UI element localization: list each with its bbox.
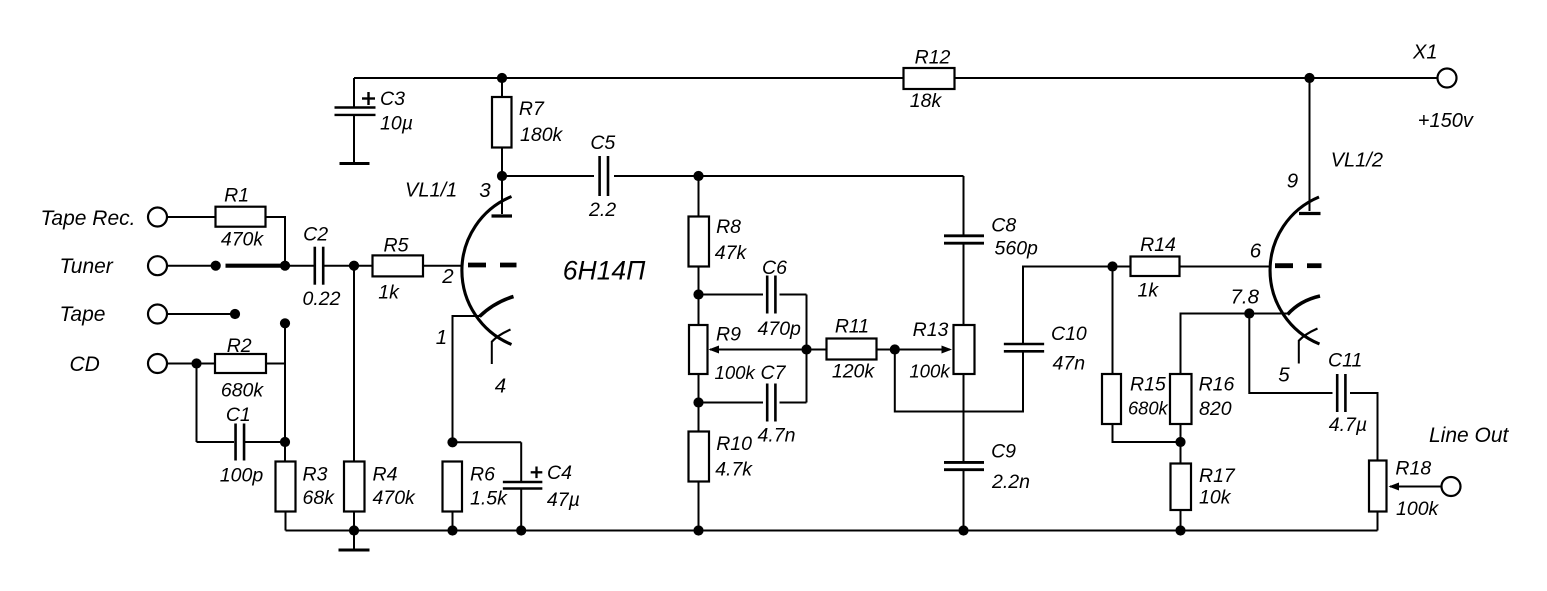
svg-text:100p: 100p (220, 465, 264, 487)
svg-text:470k: 470k (373, 487, 417, 509)
svg-text:CD: CD (70, 353, 100, 376)
svg-text:10µ: 10µ (380, 113, 413, 135)
svg-text:VL1/2: VL1/2 (1331, 149, 1383, 171)
svg-text:820: 820 (1199, 398, 1232, 420)
svg-text:4.7k: 4.7k (715, 458, 753, 480)
svg-text:4.7n: 4.7n (758, 425, 796, 447)
svg-text:560p: 560p (995, 238, 1039, 260)
svg-text:R16: R16 (1199, 374, 1235, 396)
svg-text:2.2: 2.2 (588, 199, 616, 221)
svg-text:R8: R8 (716, 216, 741, 238)
svg-text:6Н14П: 6Н14П (563, 256, 646, 286)
svg-text:C3: C3 (380, 88, 405, 110)
svg-text:R15: R15 (1130, 374, 1166, 396)
svg-text:9: 9 (1287, 170, 1298, 193)
svg-text:C11: C11 (1328, 350, 1362, 372)
svg-text:R12: R12 (915, 47, 951, 69)
svg-text:R11: R11 (835, 316, 869, 338)
svg-text:47k: 47k (715, 242, 748, 264)
svg-text:R2: R2 (227, 335, 252, 357)
svg-text:470p: 470p (758, 318, 802, 340)
svg-text:R17: R17 (1199, 465, 1236, 487)
svg-text:C4: C4 (547, 462, 572, 484)
svg-text:6: 6 (1250, 240, 1262, 263)
svg-text:+150v: +150v (1418, 110, 1474, 132)
svg-text:680k: 680k (221, 380, 265, 402)
svg-text:R4: R4 (373, 464, 398, 486)
svg-text:C1: C1 (226, 404, 251, 426)
svg-text:R1: R1 (224, 185, 249, 207)
svg-text:Tuner: Tuner (60, 255, 114, 278)
svg-text:C8: C8 (991, 215, 1016, 237)
svg-text:R6: R6 (470, 464, 495, 486)
svg-text:1.5k: 1.5k (470, 488, 508, 510)
svg-text:R13: R13 (913, 319, 949, 341)
svg-text:C5: C5 (590, 132, 615, 154)
svg-text:C6: C6 (762, 257, 787, 279)
svg-text:Line Out: Line Out (1429, 424, 1510, 447)
svg-text:180k: 180k (520, 124, 564, 146)
svg-text:100k: 100k (1396, 498, 1440, 520)
svg-text:R9: R9 (716, 324, 741, 346)
svg-text:R5: R5 (384, 235, 409, 257)
svg-text:100k: 100k (715, 362, 757, 383)
svg-text:Tape Rec.: Tape Rec. (41, 207, 136, 230)
svg-text:7.8: 7.8 (1231, 286, 1260, 309)
svg-text:C9: C9 (991, 441, 1016, 463)
svg-text:VL1/1: VL1/1 (405, 180, 457, 202)
svg-text:68k: 68k (303, 487, 336, 509)
svg-text:Tape: Tape (60, 303, 106, 326)
svg-text:2: 2 (441, 265, 454, 288)
svg-text:18k: 18k (910, 90, 943, 112)
svg-text:0.22: 0.22 (303, 288, 341, 310)
svg-text:R10: R10 (716, 433, 752, 455)
svg-text:C2: C2 (303, 223, 328, 245)
svg-text:R14: R14 (1140, 234, 1176, 256)
svg-text:R3: R3 (303, 464, 328, 486)
svg-text:680k: 680k (1128, 398, 1169, 419)
svg-text:1k: 1k (1138, 280, 1160, 302)
svg-text:120k: 120k (832, 361, 876, 383)
svg-text:100k: 100k (909, 361, 951, 382)
svg-text:R18: R18 (1395, 458, 1431, 480)
svg-text:10k: 10k (1199, 487, 1232, 509)
svg-text:5: 5 (1278, 364, 1290, 387)
svg-text:X1: X1 (1412, 42, 1437, 64)
svg-text:2.2n: 2.2n (991, 471, 1030, 493)
svg-text:C10: C10 (1051, 323, 1087, 345)
svg-text:C7: C7 (761, 362, 787, 384)
svg-text:4: 4 (495, 375, 506, 398)
svg-text:3: 3 (479, 179, 491, 202)
svg-text:R7: R7 (519, 98, 545, 120)
svg-text:1k: 1k (378, 282, 400, 304)
svg-text:1: 1 (436, 326, 447, 349)
svg-text:47µ: 47µ (547, 489, 580, 511)
svg-text:47n: 47n (1053, 353, 1086, 375)
svg-text:4.7µ: 4.7µ (1329, 414, 1367, 436)
svg-text:470k: 470k (221, 229, 265, 251)
